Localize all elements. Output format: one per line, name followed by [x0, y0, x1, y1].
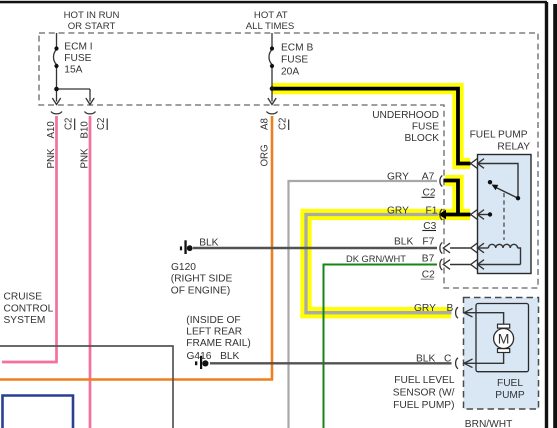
- svg-text:FUSE: FUSE: [412, 122, 439, 133]
- svg-text:UNDERHOOD: UNDERHOOD: [372, 110, 439, 121]
- svg-text:BLOCK: BLOCK: [404, 133, 439, 144]
- svg-text:PNK: PNK: [79, 148, 90, 168]
- svg-text:(INSIDE OF: (INSIDE OF: [186, 315, 240, 326]
- svg-text:OF ENGINE): OF ENGINE): [171, 285, 230, 296]
- svg-text:SENSOR (W/: SENSOR (W/: [393, 388, 455, 399]
- svg-text:BLK: BLK: [199, 238, 218, 249]
- svg-text:M: M: [498, 331, 510, 347]
- svg-text:ECM B: ECM B: [281, 43, 313, 54]
- svg-text:FUEL LEVEL: FUEL LEVEL: [394, 375, 455, 386]
- svg-text:ECM I: ECM I: [64, 42, 92, 53]
- svg-text:C2: C2: [96, 118, 107, 130]
- svg-text:OR START: OR START: [68, 21, 116, 32]
- svg-text:F1: F1: [426, 206, 438, 217]
- svg-text:A8: A8: [260, 118, 271, 130]
- svg-text:C2: C2: [278, 118, 289, 130]
- svg-text:BLK: BLK: [220, 351, 239, 362]
- svg-text:B: B: [447, 303, 454, 314]
- svg-text:RELAY: RELAY: [497, 142, 530, 153]
- svg-text:B10: B10: [79, 121, 90, 139]
- svg-text:GRY: GRY: [414, 303, 436, 314]
- svg-text:G416: G416: [187, 351, 212, 362]
- svg-text:BLK: BLK: [416, 354, 435, 365]
- svg-text:PUMP: PUMP: [495, 390, 525, 401]
- svg-text:GRY: GRY: [387, 206, 409, 217]
- svg-text:BLK: BLK: [394, 237, 413, 248]
- svg-text:FUSE: FUSE: [64, 53, 91, 64]
- svg-text:G120: G120: [171, 262, 196, 273]
- svg-text:C2: C2: [64, 118, 75, 130]
- svg-text:FUEL: FUEL: [497, 378, 523, 389]
- svg-text:CONTROL: CONTROL: [4, 303, 54, 314]
- svg-text:15A: 15A: [64, 65, 82, 76]
- svg-text:HOT IN RUN: HOT IN RUN: [64, 10, 120, 21]
- svg-text:FUSE: FUSE: [281, 55, 308, 66]
- svg-text:F7: F7: [422, 237, 434, 248]
- svg-text:HOT AT: HOT AT: [254, 10, 288, 21]
- svg-text:FUEL PUMP): FUEL PUMP): [393, 400, 454, 411]
- svg-text:DK GRN/WHT: DK GRN/WHT: [346, 254, 406, 264]
- svg-text:LEFT REAR: LEFT REAR: [186, 326, 242, 337]
- svg-text:A7: A7: [422, 172, 435, 183]
- svg-text:FRAME RAIL): FRAME RAIL): [186, 338, 251, 349]
- svg-text:BRN/WHT: BRN/WHT: [465, 419, 513, 428]
- svg-text:ORG: ORG: [260, 144, 271, 166]
- svg-text:A10: A10: [46, 121, 57, 139]
- svg-text:(RIGHT SIDE: (RIGHT SIDE: [171, 274, 233, 285]
- svg-text:SYSTEM: SYSTEM: [4, 315, 46, 326]
- svg-text:GRY: GRY: [387, 172, 409, 183]
- svg-text:B7: B7: [422, 254, 435, 265]
- svg-text:CRUISE: CRUISE: [4, 292, 43, 303]
- svg-text:PNK: PNK: [46, 148, 57, 168]
- svg-text:FUEL PUMP: FUEL PUMP: [470, 130, 528, 141]
- svg-text:ALL TIMES: ALL TIMES: [246, 21, 295, 32]
- svg-text:C: C: [444, 354, 451, 365]
- svg-text:20A: 20A: [281, 67, 299, 78]
